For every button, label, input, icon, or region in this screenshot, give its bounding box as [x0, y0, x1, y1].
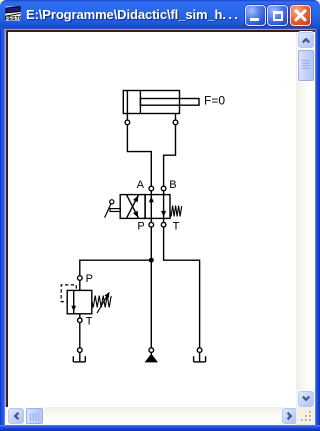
relief valve port T [78, 314, 83, 323]
scrollbar down button [298, 391, 314, 407]
maximize button [267, 5, 288, 26]
valve right box flow P to A [149, 195, 154, 219]
wire P down to source [150, 227, 152, 348]
relief valve adjust arrow [97, 290, 112, 313]
scrollbar up button [298, 32, 314, 48]
close button [290, 5, 311, 26]
cylinder piston [127, 91, 140, 114]
relief valve flow line with arrow [71, 290, 76, 313]
relief valve port P [78, 276, 83, 291]
pressure source port circle [149, 348, 154, 353]
valve port B circle [161, 186, 166, 194]
valve port P circle [149, 218, 154, 227]
minimize button [245, 5, 266, 26]
tank1 port circle [78, 348, 83, 353]
window borders [0, 29, 5, 431]
wire relief T to tank [79, 323, 81, 348]
valve left box crossed arrow P-B [126, 194, 140, 218]
valve port T circle [161, 218, 166, 227]
wire cylinder-left to valve A [127, 125, 151, 187]
tank2 port circle [197, 348, 202, 353]
relief valve spring [92, 296, 111, 308]
valve spring [170, 206, 182, 217]
pressure source symbol [145, 352, 158, 362]
FESTO icon [5, 5, 21, 21]
wire cylinder-right to valve B [164, 125, 176, 187]
svg-text:F=0: F=0 [204, 94, 225, 108]
svg-text:P: P [86, 273, 93, 285]
svg-text:A: A [137, 179, 145, 191]
title bar [0, 0, 320, 29]
svg-text:T: T [86, 316, 93, 328]
svg-text:P: P [137, 221, 144, 233]
tank2 symbol [194, 352, 206, 362]
svg-text:T: T [173, 221, 180, 233]
horizontal thumb [26, 408, 43, 424]
title text [26, 7, 240, 22]
horizontal scrollbar track [5, 407, 315, 425]
tank1 symbol [73, 352, 85, 362]
relief valve pilot dashed line [61, 285, 76, 302]
cylinder C1 body [123, 91, 179, 114]
svg-text:B: B [169, 179, 176, 191]
junction node [149, 258, 154, 263]
wire valve T to tank2 [164, 227, 200, 348]
valve V1 left box [120, 195, 145, 219]
scrollbar left button [8, 408, 24, 424]
relief valve RV1 body [67, 290, 92, 313]
valve right box flow B to T [161, 195, 166, 219]
cylinder left port [125, 114, 130, 125]
valve V1 right box [145, 195, 170, 219]
valve port A circle [149, 186, 154, 194]
cylinder rod [140, 99, 199, 106]
scrollbar right button [282, 408, 298, 424]
vertical thumb [298, 50, 314, 82]
valve left box crossed arrow A-T [126, 195, 140, 219]
cylinder right port [173, 114, 178, 125]
white canvas [8, 32, 296, 407]
valve lever actuator [105, 200, 121, 218]
sizing grip corner [296, 407, 315, 425]
vertical scrollbar track [296, 32, 315, 407]
wire junction to relief P [80, 260, 152, 276]
